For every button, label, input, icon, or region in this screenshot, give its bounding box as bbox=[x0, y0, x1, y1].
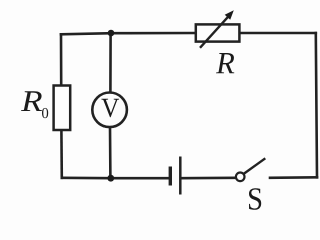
voltmeter V (circle) bbox=[92, 93, 127, 128]
wire right side vertical bbox=[316, 33, 317, 177]
wire voltmeter bottom (meter down to node B) bbox=[109, 127, 112, 178]
label R0 bbox=[21, 91, 48, 118]
wire left side upper (R0 top to top-left corner) bbox=[60, 34, 63, 85]
rheostat R body (box) bbox=[196, 24, 240, 41]
switch S lever bbox=[244, 158, 265, 173]
wire voltmeter top (node A down to meter) bbox=[109, 33, 112, 93]
node B junction dot (bottom) bbox=[107, 175, 114, 182]
battery negative plate (short) bbox=[169, 167, 172, 186]
label S bbox=[249, 188, 261, 210]
battery positive plate (long) bbox=[179, 157, 182, 195]
node A junction dot (top) bbox=[108, 30, 115, 37]
wire rheostat R right terminal to top-right corner bbox=[239, 32, 316, 35]
switch S pivot (open circle) bbox=[236, 173, 245, 182]
wire node A to rheostat R left terminal bbox=[111, 32, 196, 35]
resistor R0 body (box) bbox=[54, 86, 71, 131]
wire battery negative plate to node B bbox=[111, 177, 170, 180]
voltmeter letter V bbox=[101, 99, 119, 117]
wire top-left horizontal (corner to node A) bbox=[61, 33, 111, 34]
rheostat R arrow bbox=[200, 10, 234, 48]
wire switch to battery positive plate bbox=[182, 177, 236, 180]
label R (rheostat) bbox=[216, 53, 234, 73]
wire left side lower (corner up to R0 bottom) bbox=[60, 130, 63, 178]
wire bottom-right (corner to switch right contact) bbox=[270, 176, 317, 179]
wire node B to bottom-left corner bbox=[62, 177, 111, 180]
